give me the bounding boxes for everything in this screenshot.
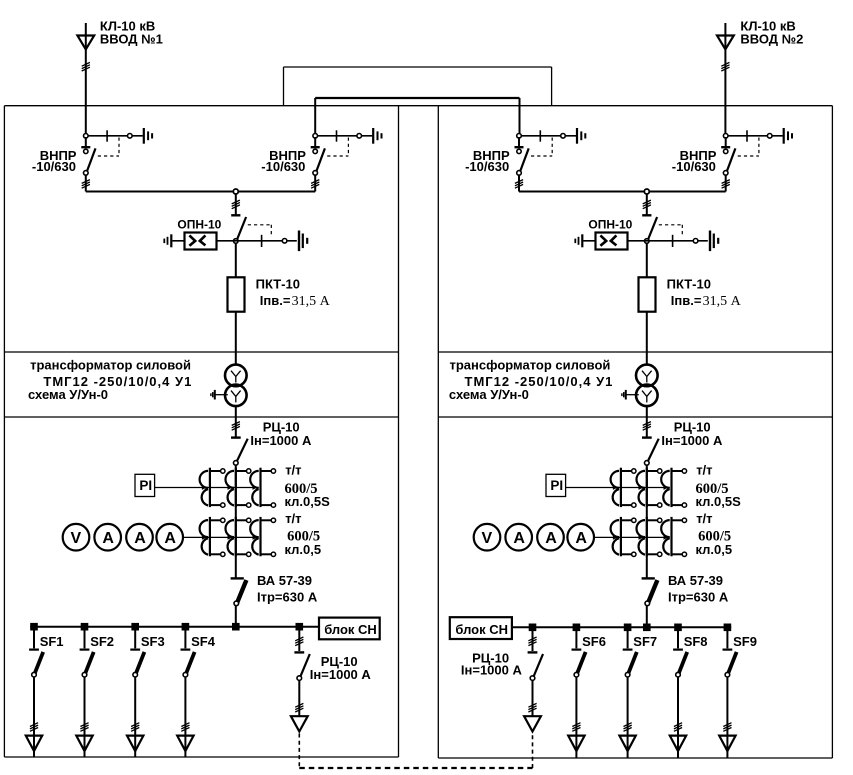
wire: from load-break switch QW2 down to 10kV section bus — [314, 175, 316, 192]
svg-text:трансформатор силовой: трансформатор силовой — [450, 358, 611, 373]
wire: bus to breaker SF9 — [726, 627, 728, 648]
node: disconnector bottom contact, section 2 — [645, 239, 650, 244]
power transformer T1 primary winding circle — [225, 365, 247, 387]
label Iн=1000 А of sectional switch — [461, 663, 523, 678]
breaker blade of SF8 — [679, 652, 688, 674]
label -10/630 of load-break switch QW2 — [261, 159, 305, 174]
node: hinge contact of load-break switch QW4 — [724, 149, 728, 153]
svg-text:т/т: т/т — [696, 511, 712, 526]
fixed contact bar of breaker SF6 — [572, 648, 582, 650]
svg-text:кл.0,5: кл.0,5 — [285, 542, 322, 557]
label т/т row2, section 2 — [696, 511, 712, 526]
svg-text:т/т: т/т — [285, 511, 301, 526]
fixed contact bar of load-break switch QW3 — [515, 146, 524, 148]
label SF4 — [191, 634, 216, 649]
label SF6 — [582, 634, 606, 649]
current transformer row 2 unit 3, section 1 — [250, 517, 275, 557]
node: right earthing contact, section 1 — [282, 239, 287, 244]
fixed contact bar of breaker SF2 — [80, 648, 90, 650]
wire: main LV column through CT block, section 2 — [646, 465, 648, 578]
label ВНПР of load-break switch QW1 — [40, 148, 77, 163]
ground symbol right branch, section 2 — [710, 231, 718, 252]
cable insert marks above reserve arrow — [295, 703, 303, 712]
wire: breaker to LV bus, section 1 — [235, 605, 237, 627]
svg-text:Iпв.=: Iпв.= — [260, 293, 291, 308]
svg-text:Iтр=630 А: Iтр=630 А — [668, 590, 729, 605]
node: hinge contact of load-break switch QW2 — [313, 149, 317, 153]
svg-text:-10/630: -10/630 — [261, 159, 305, 174]
svg-text:блок СН: блок СН — [324, 622, 377, 637]
current transformer row 1 unit 2, section 2 — [637, 468, 662, 508]
wire: earthing branch of load-break switch QW1 — [88, 135, 143, 137]
wire: metering line from PI counter to CTs, section 2 — [566, 485, 670, 490]
node: earthing switch contact of load-break switch QW1 — [128, 134, 133, 139]
label кл.0,5 row2, section 1 — [285, 542, 322, 557]
fixed contact bar of breaker SF1 — [29, 648, 39, 650]
switch blade of РЦ-10, section 1 — [236, 439, 247, 463]
label Iн=1000 А at transformer output, section 2 — [661, 433, 723, 448]
wire: from load-break switch QW1 down to 10kV section bus — [85, 175, 87, 192]
svg-text:Iн=1000 А: Iн=1000 А — [310, 667, 372, 682]
label ВА 57-39, section 2 — [668, 573, 723, 588]
left cubicle divider line below transformer section — [4, 416, 398, 418]
label трансформатор силовой, section 2 — [450, 358, 611, 373]
svg-text:V: V — [71, 530, 82, 547]
svg-text:PI: PI — [139, 478, 152, 493]
node: top terminal of load-break switch QW3 — [517, 134, 522, 139]
svg-text:SF7: SF7 — [633, 634, 657, 649]
ammeter A3, section 2 — [567, 524, 594, 551]
node: disconnector bottom contact, section 1 — [234, 239, 239, 244]
node: bus junction of feeder SF1 — [30, 623, 38, 631]
ammeter A1, section 2 — [505, 524, 532, 551]
label ВНПР of load-break switch QW2 — [269, 148, 306, 163]
breaker ВА 57-39 blade, section 1 — [237, 580, 246, 602]
node: bottom contact of breaker SF3 — [133, 672, 138, 677]
wire: fuse down to power transformer, section 2 — [646, 312, 648, 365]
label ВВОД №1 — [100, 31, 163, 46]
wire: earthing branch of load-break switch QW3 — [521, 135, 576, 137]
mechanical interlock dashed link of load-break switch QW4 — [738, 138, 759, 157]
wire: bus to breaker SF4 — [184, 627, 186, 649]
wire: stub from terminal to contact bar of load-break switch QW1 — [85, 137, 87, 146]
svg-text:A: A — [575, 530, 587, 547]
outgoing cable arrow of feeder SF8 — [670, 736, 686, 751]
node: breaker bottom contact, section 1 — [234, 601, 239, 606]
label ПКТ-10, section 2 — [667, 276, 711, 291]
node: bus junction of feeder SF2 — [81, 623, 89, 631]
wire: sectional switch down to reserve cable arrow — [532, 680, 534, 716]
label -10/630 of load-break switch QW1 — [32, 159, 76, 174]
svg-text:V: V — [482, 530, 493, 547]
wire: stub from terminal to contact bar of load-break switch QW2 — [314, 137, 316, 146]
outgoing cable arrow of feeder SF7 — [619, 736, 635, 751]
fuse ПКТ-10, section 1 — [228, 277, 245, 311]
label КЛ-10 кВ for ВВОД №1 — [100, 19, 155, 34]
fixed contact bar of breaker SF8 — [673, 648, 683, 650]
cable insert marks on feeder SF2 — [80, 723, 88, 732]
svg-text:A: A — [164, 530, 176, 547]
label трансформатор силовой, section 1 — [30, 358, 191, 373]
блок СН box, section 2 — [450, 617, 512, 639]
ground symbol of load-break switch QW2 earthing branch — [373, 128, 381, 144]
cable insert marks on ВВОД №2 — [721, 62, 729, 71]
wire: outgoing feeder SF3 — [134, 677, 136, 757]
svg-text:A: A — [134, 530, 146, 547]
wire: incoming cable ВВОД №1 drop at x=85.8 — [85, 23, 87, 136]
breaker blade of SF7 — [628, 652, 637, 674]
label 600/5 row2, section 2 — [698, 528, 731, 544]
node: top terminal of load-break switch QW4 — [723, 134, 728, 139]
ammeter A2, section 2 — [537, 524, 564, 551]
svg-text:31,5 А: 31,5 А — [292, 294, 331, 309]
cable insert marks above reserve arrow — [528, 703, 536, 712]
ground symbol of load-break switch QW1 earthing branch — [144, 128, 152, 144]
label 600/5 row2, section 1 — [287, 528, 320, 544]
surge arrester ОПН-10 box, section 2 — [596, 233, 628, 250]
node: bottom contact of load-break switch QW4 — [723, 171, 728, 176]
label -10/630 of load-break switch QW3 — [465, 159, 509, 174]
ground symbol left of surge arrester, section 1 — [164, 234, 171, 247]
wire: main LV column through CT block, section 1 — [235, 465, 237, 578]
svg-text:SF9: SF9 — [733, 634, 757, 649]
label ВНПР of load-break switch QW3 — [473, 148, 510, 163]
current transformer row 2 unit 3, section 2 — [661, 517, 686, 557]
wire: transformer T2 to LV switch — [646, 406, 648, 437]
fixed contact bar of load-break switch QW2 — [311, 146, 320, 148]
outgoing cable arrow of feeder SF2 — [76, 736, 92, 751]
node: bottom contact of РЦ-10, section 1 — [234, 461, 239, 466]
label ТМГ12 -250/10/0,4 У1, section 1 — [43, 374, 192, 389]
current transformer row 1 unit 3, section 2 — [661, 468, 686, 508]
wire: thin inter-section cable loop across top — [284, 67, 552, 106]
label ОПН-10, section 1 — [177, 218, 221, 232]
svg-text:кл.0,5: кл.0,5 — [696, 542, 733, 557]
current transformer row 1 unit 3, section 1 — [250, 468, 275, 508]
node: bottom contact of РЦ-10, section 2 — [645, 461, 650, 466]
mechanical interlock dashed link of load-break switch QW1 — [98, 138, 119, 157]
wire: disconnector to fuse, section 2 — [646, 243, 648, 278]
label т/т row1, section 1 — [285, 463, 301, 478]
node: bus junction of feeder SF8 — [674, 624, 682, 632]
fixed contact bar of load-break switch QW1 — [81, 146, 90, 148]
svg-text:SF3: SF3 — [141, 634, 165, 649]
fixed contact bar of breaker SF9 — [723, 648, 733, 650]
earthing-switch tick of load-break switch QW4 — [746, 130, 748, 141]
voltmeter V, section 1 — [63, 524, 90, 551]
svg-text:схема У/Ун-0: схема У/Ун-0 — [28, 387, 108, 402]
svg-text:A: A — [102, 530, 114, 547]
wire: outgoing feeder SF7 — [627, 677, 629, 758]
node: bus junction of sectional РЦ-10 drop — [296, 623, 304, 631]
svg-text:-10/630: -10/630 — [672, 159, 716, 174]
node: bottom contact of sectional РЦ-10 — [297, 676, 302, 681]
cable insert marks on feeder SF8 — [674, 723, 682, 732]
ground symbol of load-break switch QW3 earthing branch — [577, 128, 585, 144]
wire: earthing branch of load-break switch QW2 — [317, 135, 372, 137]
fixed contact bar of breaker SF7 — [623, 648, 633, 650]
cable insert marks on feeder SF9 — [723, 723, 731, 732]
right cubicle divider line below transformer section — [438, 416, 832, 418]
label схема У/Ун-0, section 1 — [28, 387, 108, 402]
wire: 10kV bus of section 1 — [86, 191, 315, 193]
label SF7 — [633, 634, 657, 649]
wire: from load-break switch QW4 down to 10kV section bus — [725, 175, 727, 192]
svg-text:-10/630: -10/630 — [32, 159, 76, 174]
fixed contact bar of disconnector, section 1 — [231, 214, 240, 216]
neutral ground of transformer T2 — [622, 390, 639, 400]
node: earthing switch contact of load-break switch QW2 — [357, 134, 362, 139]
switch blade of sectional РЦ-10 — [533, 654, 543, 677]
node: bottom contact of load-break switch QW1 — [84, 171, 89, 176]
label ВНПР of load-break switch QW4 — [680, 148, 717, 163]
svg-text:Iн=1000 А: Iн=1000 А — [661, 433, 723, 448]
fuse ПКТ-10, section 2 — [639, 277, 656, 311]
cable head arrow of ВВОД №2 — [717, 36, 734, 50]
wire: surge-arrester branch, section 2 — [583, 240, 708, 242]
wire: transformer T1 to LV switch — [235, 406, 237, 437]
cable insert marks on feeder SF1 — [30, 723, 38, 732]
node: junction on 10kV bus of section 1 — [233, 189, 238, 194]
voltmeter V, section 2 — [474, 524, 501, 551]
breaker blade of SF9 — [728, 652, 737, 674]
svg-text:схема У/Ун-0: схема У/Ун-0 — [449, 387, 529, 402]
svg-text:блок СН: блок СН — [455, 622, 508, 637]
wire: bus junction down to disconnector, section 1 — [235, 194, 237, 215]
current transformer row 2 unit 1, section 1 — [200, 517, 225, 557]
wire: outgoing feeder SF4 — [184, 677, 186, 757]
node: bus junction of feeder SF7 — [624, 624, 632, 632]
wire: bus to sectional switch РЦ-10 — [532, 627, 534, 651]
svg-text:ВВОД №1: ВВОД №1 — [100, 31, 163, 46]
interlock dashed link of disconnector, section 1 — [248, 225, 271, 237]
label т/т row2, section 1 — [285, 511, 301, 526]
node: bus junction of feeder SF6 — [573, 624, 581, 632]
switch blade of РЦ-10, section 2 — [647, 439, 658, 463]
node: bus junction of feeder SF4 — [182, 623, 190, 631]
earthing tick on right branch, section 2 — [672, 235, 674, 247]
electricity meter PI box, section 2 — [546, 474, 566, 496]
fixed contact bar of switch РЦ-10, section 2 — [642, 436, 652, 438]
ground symbol left of surge arrester, section 2 — [575, 234, 582, 247]
cable insert marks below load-break switch QW4 — [722, 180, 730, 189]
node: earthing switch contact of load-break switch QW4 — [767, 134, 772, 139]
cable insert marks on drop, section 2 — [643, 200, 651, 209]
label РЦ-10 at transformer output, section 1 — [263, 420, 300, 435]
wire: metering line from ammeters to CTs, section 1 — [183, 535, 259, 540]
disconnector blade, section 2 — [648, 217, 658, 241]
node: top terminal of load-break switch QW2 — [313, 134, 318, 139]
wire: outgoing feeder SF8 — [677, 677, 679, 758]
label Iтр=630 А, section 1 — [257, 590, 318, 605]
wire: 10kV tie link between section 1 and section 2 — [315, 98, 519, 136]
earthing-switch tick of load-break switch QW1 — [106, 130, 108, 141]
node: bottom contact of load-break switch QW2 — [313, 171, 318, 176]
label КЛ-10 кВ for ВВОД №2 — [740, 19, 795, 34]
current transformer row 1 unit 2, section 1 — [226, 468, 251, 508]
electricity meter PI box, section 1 — [135, 474, 155, 496]
cable insert marks on ВВОД №1 — [82, 62, 90, 71]
cable insert marks above sectional РЦ-10 — [528, 637, 536, 646]
svg-text:т/т: т/т — [285, 463, 301, 478]
блок СН box, section 1 — [319, 618, 380, 640]
svg-text:ПКТ-10: ПКТ-10 — [256, 276, 300, 291]
wire: metering line from ammeters to CTs, section 2 — [594, 535, 670, 540]
fixed contact bar of breaker SF4 — [181, 648, 191, 650]
fixed contact bar of disconnector, section 2 — [642, 214, 651, 216]
svg-text:31,5 А: 31,5 А — [703, 294, 742, 309]
wire: bus to breaker SF7 — [627, 627, 629, 648]
svg-text:SF4: SF4 — [191, 634, 216, 649]
disconnector blade, section 1 — [237, 217, 247, 241]
label РЦ-10 of sectional switch — [472, 650, 509, 665]
svg-text:ВВОД №2: ВВОД №2 — [740, 31, 803, 46]
wire: outgoing feeder SF9 — [726, 677, 728, 758]
surge arrester ОПН-10 box, section 1 — [185, 233, 217, 250]
svg-text:Iн=1000 А: Iн=1000 А — [250, 433, 312, 448]
node: breaker bottom contact, section 2 — [645, 601, 650, 606]
cable insert marks on feeder SF4 — [181, 723, 189, 732]
svg-text:ПКТ-10: ПКТ-10 — [667, 276, 711, 291]
current transformer row 1 unit 1, section 2 — [611, 468, 636, 508]
node: bottom contact of breaker SF7 — [625, 672, 630, 677]
outgoing cable arrow of feeder SF6 — [568, 736, 584, 751]
interlock dashed link of disconnector, section 2 — [659, 225, 683, 237]
wire: bus to sectional switch РЦ-10 — [298, 627, 300, 651]
left cubicle outline box — [4, 106, 398, 757]
wire: outgoing feeder SF1 — [33, 677, 35, 757]
outgoing cable arrow of feeder SF4 — [177, 736, 193, 751]
svg-text:A: A — [545, 530, 557, 547]
node: bus junction of feeder SF3 — [131, 623, 139, 631]
cable insert marks on drop, section 1 — [232, 200, 240, 209]
svg-text:SF6: SF6 — [582, 634, 606, 649]
label ТМГ12 -250/10/0,4 У1, section 2 — [465, 374, 614, 389]
ammeter A1, section 1 — [94, 524, 121, 551]
wire: common top edge line of both switchgear cubicle outlines — [4, 105, 832, 107]
cable insert marks above LV switch, section 1 — [232, 422, 240, 431]
earthing tick on right branch, section 1 — [261, 235, 263, 247]
label 600/5 row1, section 2 — [696, 481, 729, 497]
svg-text:SF2: SF2 — [90, 634, 114, 649]
breaker blade of SF2 — [85, 652, 94, 674]
cable insert marks below load-break switch QW3 — [515, 180, 523, 189]
svg-text:Iн=1000 А: Iн=1000 А — [461, 663, 523, 678]
ground symbol of load-break switch QW4 earthing branch — [784, 128, 792, 144]
cable insert marks below load-break switch QW1 — [82, 180, 90, 189]
switch blade of load-break switch QW1 — [87, 148, 96, 172]
power transformer T2 primary winding circle — [636, 365, 658, 387]
node: hinge contact of load-break switch QW3 — [517, 149, 521, 153]
svg-text:-10/630: -10/630 — [465, 159, 509, 174]
wire: from load-break switch QW3 down to 10kV section bus — [518, 175, 520, 192]
fixed contact bar of sectional РЦ-10 — [528, 651, 538, 653]
current transformer row 2 unit 2, section 1 — [226, 517, 251, 557]
cable insert marks on feeder SF3 — [131, 723, 139, 732]
breaker blade of SF6 — [577, 652, 586, 674]
label Iн=1000 А of sectional switch — [310, 667, 372, 682]
fixed contact bar of load-break switch QW4 — [721, 146, 730, 148]
svg-text:ВА 57-39: ВА 57-39 — [257, 573, 312, 588]
label SF1 — [40, 634, 64, 649]
node: bottom contact of breaker SF6 — [574, 672, 579, 677]
label кл.0,5S row1, section 2 — [696, 494, 742, 509]
wire: bus to breaker SF1 — [33, 627, 35, 649]
node: bottom contact of breaker SF8 — [676, 672, 681, 677]
reserve cable arrow of sectional link — [291, 716, 308, 731]
svg-text:кл.0,5S: кл.0,5S — [285, 494, 331, 509]
breaker blade of SF3 — [136, 652, 145, 674]
fixed contact bar of switch РЦ-10, section 1 — [231, 436, 241, 438]
wire: fuse down to power transformer, section 1 — [235, 312, 237, 365]
current transformer row 2 unit 2, section 2 — [637, 517, 662, 557]
wire: LV busbar, section 2 — [512, 626, 731, 628]
cable insert marks above sectional РЦ-10 — [295, 637, 303, 646]
wire: dashed reserve tie between sections (bottom run) — [299, 767, 532, 769]
svg-text:ОПН-10: ОПН-10 — [588, 218, 632, 232]
wire: bus to breaker SF8 — [677, 627, 679, 648]
power transformer T2 secondary winding circle — [636, 385, 658, 407]
breaker blade of SF4 — [186, 652, 195, 674]
label Iпв.= 31,5 А, section 2 — [671, 293, 742, 309]
node: bus junction main input, section 1 — [232, 623, 240, 631]
label SF2 — [90, 634, 114, 649]
wire: metering line from PI counter to CTs, section 1 — [155, 485, 259, 490]
label Iтр=630 А, section 2 — [668, 590, 729, 605]
svg-text:PI: PI — [550, 478, 563, 493]
node: bus junction of feeder SF9 — [724, 624, 732, 632]
switch blade of load-break switch QW3 — [520, 148, 529, 172]
wire: dashed reserve tie between sections (right leg) — [532, 734, 534, 769]
node: earthing switch contact of load-break switch QW3 — [561, 134, 566, 139]
svg-text:A: A — [513, 530, 525, 547]
node: bus junction main input, section 2 — [643, 624, 651, 632]
wire: stub from terminal to contact bar of load-break switch QW3 — [518, 137, 520, 146]
label ВВОД №2 — [740, 31, 803, 46]
node: bottom contact of load-break switch QW3 — [517, 171, 522, 176]
wire: bus junction down to disconnector, section 2 — [646, 194, 648, 215]
svg-text:кл.0,5S: кл.0,5S — [696, 494, 742, 509]
left cubicle divider line above transformer section — [4, 351, 398, 353]
svg-text:Iпв.=: Iпв.= — [671, 293, 702, 308]
wire: dashed reserve tie between sections (left leg) — [298, 734, 300, 769]
node: right earthing contact, section 2 — [693, 239, 698, 244]
wire: outgoing feeder SF2 — [84, 677, 86, 757]
wire: incoming cable ВВОД №2 drop at x=725.4 — [724, 23, 726, 136]
label РЦ-10 of sectional switch — [321, 654, 358, 669]
fixed contact bar of sectional РЦ-10 — [294, 651, 304, 653]
cable insert marks on feeder SF7 — [624, 723, 632, 732]
switch blade of sectional РЦ-10 — [300, 654, 310, 677]
cable insert marks above LV switch, section 2 — [643, 422, 651, 431]
outgoing cable arrow of feeder SF3 — [127, 736, 143, 751]
mechanical interlock dashed link of load-break switch QW3 — [531, 138, 552, 157]
label Iн=1000 А at transformer output, section 1 — [250, 433, 312, 448]
cable head arrow of ВВОД №1 — [77, 36, 94, 50]
outgoing cable arrow of feeder SF9 — [719, 736, 735, 751]
label -10/630 of load-break switch QW4 — [672, 159, 716, 174]
wire: breaker to LV bus, section 2 — [646, 605, 648, 627]
label кл.0,5S row1, section 1 — [285, 494, 331, 509]
svg-text:Iтр=630 А: Iтр=630 А — [257, 590, 318, 605]
svg-text:трансформатор силовой: трансформатор силовой — [30, 358, 191, 373]
label т/т row1, section 2 — [696, 463, 712, 478]
current transformer row 2 unit 1, section 2 — [611, 517, 636, 557]
breaker ВА 57-39 blade, section 2 — [648, 580, 657, 602]
current transformer row 1 unit 1, section 1 — [200, 468, 225, 508]
label SF3 — [141, 634, 165, 649]
label ОПН-10, section 2 — [588, 218, 632, 232]
